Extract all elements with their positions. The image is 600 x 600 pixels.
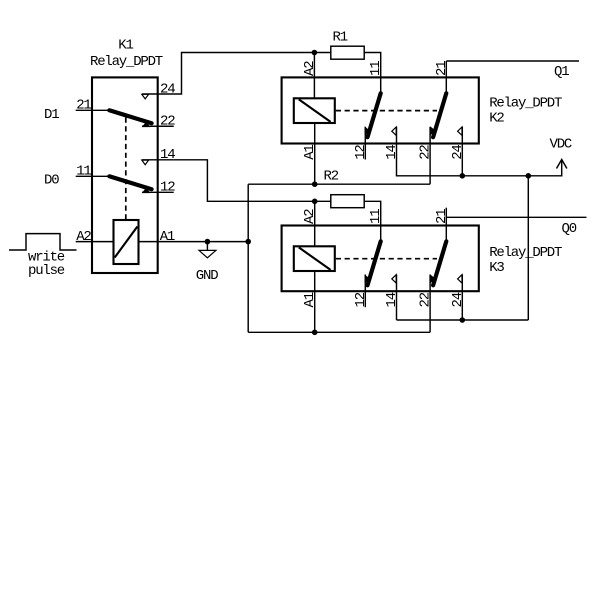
svg-text:A1: A1	[160, 229, 175, 245]
wire K3 pins 14/24 to VDC rail	[396, 291, 398, 320]
K3 pin 22 wire down	[429, 291, 431, 332]
junction GND tap	[205, 239, 211, 245]
svg-text:R1: R1	[333, 30, 348, 46]
K3 pin 24 wire down	[461, 291, 463, 320]
K1 pin 24 NO marker	[142, 94, 149, 99]
svg-text:11: 11	[368, 209, 384, 224]
K1 pin 14 NO marker	[142, 160, 149, 165]
label write pulse	[28, 249, 65, 279]
K2 pin 24 wire down	[461, 144, 463, 176]
svg-text:21: 21	[434, 209, 450, 224]
relay K2 body box	[282, 77, 479, 143]
svg-text:A2: A2	[302, 209, 318, 224]
svg-text:Relay_DPDT: Relay_DPDT	[489, 245, 562, 261]
K3 pin 21	[434, 208, 450, 242]
K2 coupling dashed line	[336, 110, 437, 112]
svg-text:Relay_DPDT: Relay_DPDT	[90, 54, 163, 70]
wire K1 pin24 to R1/K2.A2 node	[174, 53, 315, 95]
svg-text:R2: R2	[324, 169, 339, 185]
svg-text:14: 14	[384, 145, 400, 160]
ground symbol GND	[196, 242, 218, 284]
svg-text:D0: D0	[44, 172, 59, 188]
write pulse waveform	[9, 234, 77, 250]
K1 pin A2	[76, 229, 114, 245]
K2 coil	[294, 98, 335, 123]
K2 switch contact 1 (11-12)	[365, 93, 381, 137]
junction R2 node / K3.A2	[312, 199, 318, 205]
svg-text:A1: A1	[302, 145, 318, 160]
svg-text:24: 24	[160, 81, 175, 97]
junction K3.A1	[312, 330, 318, 336]
svg-text:K1: K1	[118, 37, 133, 53]
K2 pin 24	[450, 127, 466, 160]
wire K1 A1 to GND rail	[158, 241, 249, 243]
K3 pin 12	[353, 275, 369, 308]
junction K2.24/VDC	[460, 173, 466, 179]
relay K1 body box	[92, 77, 158, 273]
K2 pin A1 wire down	[314, 144, 316, 185]
junction VDC rail down	[526, 173, 532, 179]
junction K3.24/VDC	[460, 317, 466, 323]
svg-text:22: 22	[418, 292, 434, 307]
K3 pin A2	[302, 201, 318, 246]
K3 pin 22	[418, 275, 434, 308]
K3 pin 24	[450, 275, 466, 308]
svg-text:D1: D1	[44, 107, 59, 123]
K2 pin 21	[434, 61, 450, 93]
K1 pin 14	[142, 147, 175, 163]
wire K2.A1 / K2.22 to GND rail	[248, 183, 430, 185]
svg-text:11: 11	[76, 164, 91, 180]
junction R1/K2.A2	[312, 50, 318, 56]
svg-text:A2: A2	[76, 229, 91, 245]
K1 pin A1	[139, 229, 175, 245]
wire K1 pin14 to R2/K3.A2 node	[174, 160, 331, 202]
svg-text:GND: GND	[196, 268, 218, 284]
resistor R1	[331, 30, 364, 60]
K1 pin 22	[142, 114, 175, 130]
K2 pin 11	[368, 61, 384, 93]
K1 pin 24	[142, 81, 175, 97]
VDC vertical rail down to K3	[527, 176, 529, 320]
svg-text:21: 21	[76, 98, 91, 114]
K2 pin 22 wire down	[429, 144, 431, 185]
svg-text:12: 12	[160, 180, 175, 196]
K2 pin A2	[302, 53, 318, 99]
svg-text:Q1: Q1	[554, 64, 569, 80]
K2 pin 12	[353, 127, 369, 160]
K2 pin 14	[384, 127, 400, 160]
wire K3.A1 / K3.22 to GND rail	[248, 331, 430, 333]
svg-text:12: 12	[353, 145, 369, 160]
K3 pin 11	[368, 209, 384, 242]
svg-text:22: 22	[160, 114, 175, 130]
K2 pin 22	[418, 127, 434, 160]
svg-text:K3: K3	[489, 260, 504, 276]
K1 pin 21	[76, 98, 110, 114]
svg-text:Q0: Q0	[562, 221, 577, 237]
K2 pin 14 NO marker	[392, 127, 396, 135]
svg-text:14: 14	[160, 147, 175, 163]
svg-text:A2: A2	[302, 61, 318, 76]
svg-text:12: 12	[353, 292, 369, 307]
svg-text:Relay_DPDT: Relay_DPDT	[489, 96, 562, 112]
junction A1/gnd-rail	[245, 239, 251, 245]
wire Q0	[446, 216, 586, 218]
svg-text:K2: K2	[489, 111, 504, 127]
K1 coil	[114, 220, 139, 264]
wire VDC bottom horizontal	[397, 319, 529, 321]
K3 switch contact 2 (21-22)	[430, 241, 446, 285]
svg-text:pulse: pulse	[28, 263, 65, 279]
K2 pin A1	[302, 123, 318, 160]
K3 pin A1 wire down	[314, 291, 316, 332]
wire R1 left	[314, 52, 330, 54]
wire R1 right to K2 pin 11	[364, 53, 381, 78]
svg-text:22: 22	[418, 145, 434, 160]
K1 switch contact 2 (11-12)	[109, 176, 151, 193]
K2 switch contact 2 (21-22)	[430, 93, 446, 137]
GND net vertical rail	[247, 184, 249, 332]
svg-text:11: 11	[368, 61, 384, 76]
K3 switch contact 1 (11-12)	[365, 241, 381, 285]
svg-text:14: 14	[384, 292, 400, 307]
svg-text:24: 24	[450, 145, 466, 160]
svg-text:21: 21	[434, 61, 450, 76]
K2 pin 24 NO marker	[458, 127, 462, 135]
K3 pin 14 NO marker	[392, 275, 396, 283]
resistor R2	[324, 169, 365, 208]
wire Q1	[446, 60, 579, 62]
K3 coil	[294, 246, 335, 271]
VDC arrow symbol	[557, 160, 567, 169]
junction K2.A1	[312, 181, 318, 187]
K1 pin 12	[142, 180, 175, 196]
K1 coupling dashed line	[125, 118, 127, 220]
relay K3 body box	[282, 226, 479, 292]
wire R2 right to K3 pin 11	[364, 201, 381, 225]
K3 coupling dashed line	[336, 258, 437, 260]
VDC rail horizontal	[397, 144, 562, 176]
K1 switch contact 1 (21-22)	[109, 110, 151, 127]
K3 pin A1	[302, 271, 318, 308]
K1 pin 11	[76, 164, 110, 180]
K3 pin 24 NO marker	[458, 275, 462, 283]
svg-text:24: 24	[450, 292, 466, 307]
svg-text:VDC: VDC	[550, 137, 572, 153]
svg-text:A1: A1	[302, 292, 318, 307]
K3 pin 14	[384, 275, 400, 308]
